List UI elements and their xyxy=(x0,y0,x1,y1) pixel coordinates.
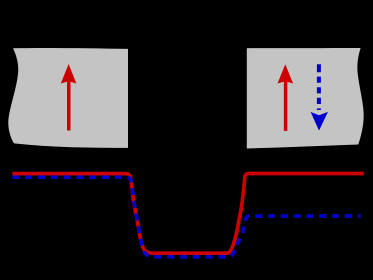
left ferromagnet block xyxy=(8,48,128,148)
blue dashed potential curve xyxy=(12,177,360,257)
left red spin-up arrow shaft xyxy=(67,81,71,131)
right red arrow head xyxy=(278,64,294,83)
blue arrow head xyxy=(311,112,328,131)
blue dashed spin-down arrow shaft xyxy=(317,64,321,110)
red potential curve xyxy=(12,174,363,254)
right ferromagnet block xyxy=(247,48,364,149)
right red spin-up arrow shaft xyxy=(284,81,288,131)
left red arrow head xyxy=(61,64,77,84)
